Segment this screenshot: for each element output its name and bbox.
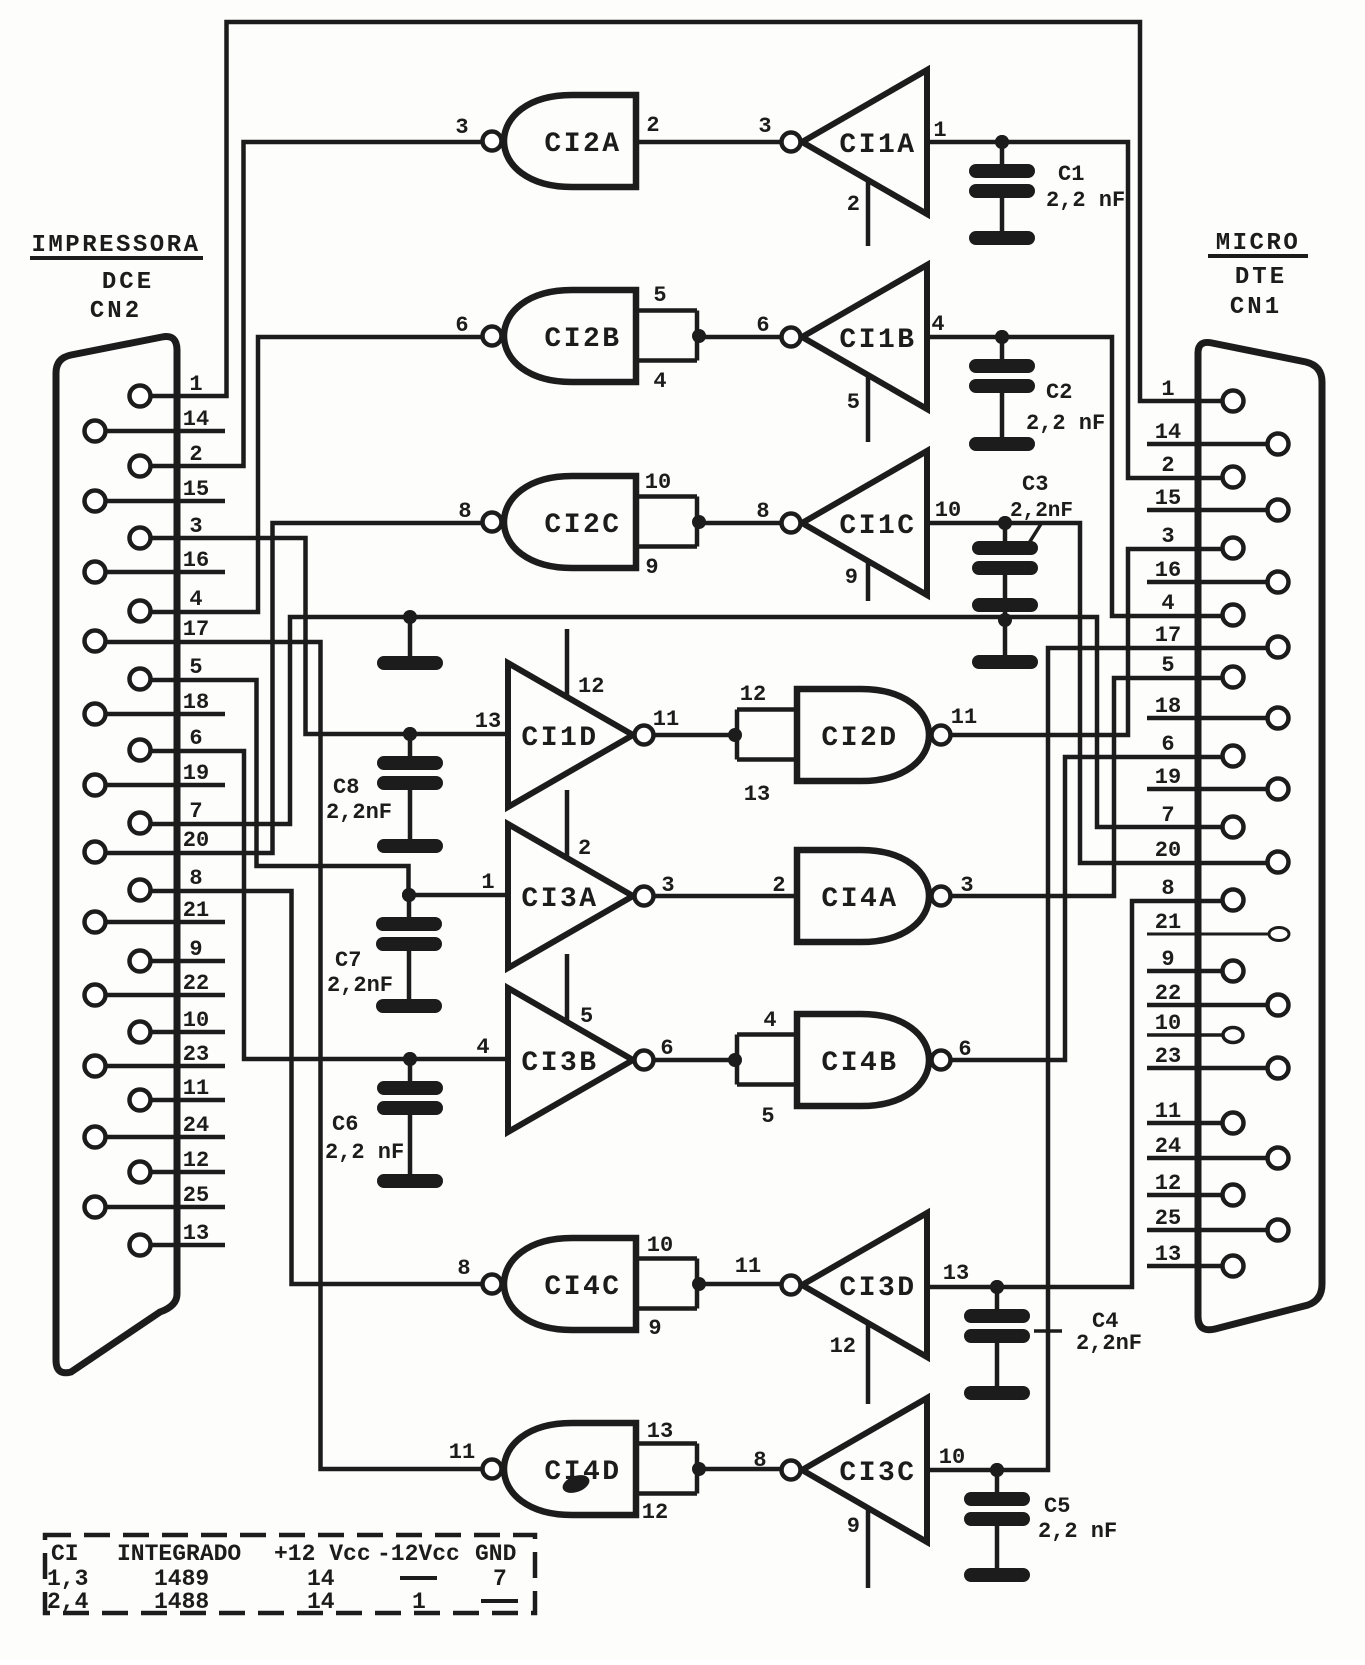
connector CN1 pin 12 bbox=[1223, 1185, 1244, 1206]
op-amp gate CI2C (1488 driver) bbox=[483, 476, 637, 568]
svg-text:4: 4 bbox=[931, 312, 944, 337]
wire CI2C output pin8 to CN2 pin20 bbox=[106, 523, 482, 853]
wire CI3A output to CI4A input bbox=[654, 894, 797, 899]
connector CN1 pin 11 bbox=[1223, 1113, 1244, 1134]
ink blot on CI4D label bbox=[560, 1472, 592, 1497]
wire CI2D output to CN1 pin3 bbox=[951, 549, 1221, 735]
connector CN2 pin 2 bbox=[130, 456, 151, 477]
wire top rail CN2.1 - CN1.1 (protective ground) bbox=[151, 22, 1221, 401]
connector CN2 pin 11 bbox=[130, 1090, 151, 1111]
svg-text:MICRO: MICRO bbox=[1216, 230, 1301, 257]
svg-text:24: 24 bbox=[1155, 1134, 1181, 1159]
connector CN1 pin 23 bbox=[1268, 1058, 1289, 1079]
svg-text:1: 1 bbox=[933, 118, 946, 143]
svg-text:11: 11 bbox=[1155, 1099, 1181, 1124]
connector CN2 pin 22 bbox=[85, 985, 106, 1006]
connector CN2 pin 5 bbox=[130, 669, 151, 690]
svg-text:23: 23 bbox=[183, 1042, 209, 1067]
wire CI3D output to CI4C inputs bbox=[699, 1282, 781, 1287]
svg-text:11: 11 bbox=[735, 1254, 761, 1279]
wire CI1B input to CN1 pin4 bbox=[927, 337, 1221, 616]
wire CI2A output pin3 to CN2 pin2 bbox=[151, 142, 482, 466]
svg-text:9: 9 bbox=[845, 565, 858, 590]
connector CN2 pin 12 bbox=[130, 1162, 151, 1183]
connector CN1 pin 3 bbox=[1223, 538, 1244, 559]
op-amp gate CI1D (1489 receiver) bbox=[508, 629, 654, 807]
svg-text:15: 15 bbox=[1155, 486, 1181, 511]
svg-text:17: 17 bbox=[183, 617, 209, 642]
svg-text:C6: C6 bbox=[332, 1112, 358, 1137]
svg-text:CI3C: CI3C bbox=[839, 1458, 916, 1489]
connector CN1 pin 10 bbox=[1223, 1028, 1243, 1043]
svg-text:16: 16 bbox=[1155, 558, 1181, 583]
wire CI3C output to CI4D inputs bbox=[699, 1467, 781, 1472]
input bracket CI2B pins 5,4 bbox=[636, 308, 697, 313]
wire CI1C input to CN1 pin20 bbox=[927, 523, 1267, 863]
svg-text:C3: C3 bbox=[1022, 472, 1048, 497]
svg-text:CI3B: CI3B bbox=[521, 1048, 598, 1079]
svg-text:9: 9 bbox=[189, 937, 202, 962]
connector CN1 pin 6 bbox=[1223, 746, 1244, 767]
svg-text:CI2C: CI2C bbox=[544, 510, 621, 541]
connector CN1 pin 18 bbox=[1268, 708, 1289, 729]
svg-text:11: 11 bbox=[449, 1440, 475, 1465]
connector CN1 pin 17 bbox=[1268, 637, 1289, 658]
connector CN2 pin 16 bbox=[85, 562, 106, 583]
connector CN1 pin 25 bbox=[1268, 1220, 1289, 1241]
svg-text:1488: 1488 bbox=[154, 1589, 209, 1615]
connector CN2 pin 15 bbox=[85, 491, 106, 512]
junction node C7 bbox=[402, 888, 416, 902]
junction node C5 bbox=[990, 1463, 1004, 1477]
svg-text:2: 2 bbox=[772, 873, 785, 898]
wire CN2 pin6 to CI3B input pin4 bbox=[151, 751, 508, 1059]
op-amp gate CI1B (1489 receiver) bbox=[782, 265, 928, 442]
capacitor C5 bbox=[990, 1463, 1004, 1477]
svg-text:1: 1 bbox=[412, 1589, 426, 1615]
connector CN1 pin 24 bbox=[1268, 1148, 1289, 1169]
connector CN2 pin 25 bbox=[85, 1197, 106, 1218]
svg-text:CI4B: CI4B bbox=[821, 1048, 898, 1079]
connector CN1 pin 15 bbox=[1268, 500, 1289, 521]
svg-text:C2: C2 bbox=[1046, 380, 1072, 405]
capacitor C4 bbox=[990, 1280, 1004, 1294]
connector CN2 pin 10 bbox=[130, 1022, 151, 1043]
svg-text:14: 14 bbox=[183, 407, 209, 432]
svg-text:C1: C1 bbox=[1058, 162, 1084, 187]
input bracket CI4C pins 10,9 bbox=[636, 1256, 697, 1261]
svg-text:22: 22 bbox=[1155, 981, 1181, 1006]
svg-text:4: 4 bbox=[189, 587, 202, 612]
wire CI4B output to CN1 pin6 bbox=[951, 757, 1221, 1060]
connector CN1 pin 21 bbox=[1269, 928, 1289, 941]
svg-text:12: 12 bbox=[642, 1500, 668, 1525]
svg-text:8: 8 bbox=[457, 1256, 470, 1281]
svg-text:8: 8 bbox=[1161, 876, 1174, 901]
svg-text:16: 16 bbox=[183, 548, 209, 573]
svg-text:2,2nF: 2,2nF bbox=[326, 800, 392, 825]
svg-text:5: 5 bbox=[761, 1104, 774, 1129]
svg-text:8: 8 bbox=[756, 499, 769, 524]
wire CI1A input to CN1 pin2 bbox=[927, 142, 1221, 478]
svg-text:13: 13 bbox=[943, 1261, 969, 1286]
connector CN2 pin 4 bbox=[130, 601, 151, 622]
junction node C1 bbox=[995, 135, 1009, 149]
wire CI3D input to CN1 pin8 bbox=[928, 901, 1221, 1287]
op-amp gate CI2A (1488 driver) bbox=[483, 95, 637, 187]
svg-text:13: 13 bbox=[183, 1221, 209, 1246]
svg-text:18: 18 bbox=[1155, 694, 1181, 719]
svg-text:15: 15 bbox=[183, 477, 209, 502]
svg-text:GND: GND bbox=[475, 1541, 516, 1567]
svg-text:9: 9 bbox=[648, 1316, 661, 1341]
svg-text:12: 12 bbox=[740, 682, 766, 707]
wire CN2 pin3 to CI1D input pin13 bbox=[151, 538, 508, 734]
connector CN2 pin 3 bbox=[130, 528, 151, 549]
svg-text:4: 4 bbox=[653, 369, 666, 394]
wire CI3C input to CN1 pin17 bbox=[927, 648, 1267, 1470]
wire CI1A output to CI2A input bbox=[636, 140, 781, 145]
input bracket CI4D pins 13,12 bbox=[636, 1441, 697, 1446]
svg-text:10: 10 bbox=[1155, 1011, 1181, 1036]
junction node C4 bbox=[990, 1280, 1004, 1294]
connector CN2 pin 9 bbox=[130, 951, 151, 972]
connector CN1 pin 9 bbox=[1223, 961, 1244, 982]
svg-text:23: 23 bbox=[1155, 1044, 1181, 1069]
wire signal ground rail CN2 pin7 to CN1 pin7 bbox=[151, 617, 1221, 827]
svg-text:8: 8 bbox=[753, 1448, 766, 1473]
junction node C6 bbox=[403, 1052, 417, 1066]
connector CN1 pin 1 bbox=[1223, 391, 1244, 412]
svg-text:CI1C: CI1C bbox=[839, 511, 916, 542]
svg-text:5: 5 bbox=[847, 390, 860, 415]
svg-text:22: 22 bbox=[183, 971, 209, 996]
svg-text:DCE: DCE bbox=[102, 269, 154, 296]
svg-text:4: 4 bbox=[763, 1008, 776, 1033]
svg-text:CI4C: CI4C bbox=[544, 1272, 621, 1303]
svg-text:IMPRESSORA: IMPRESSORA bbox=[31, 232, 200, 259]
svg-text:12: 12 bbox=[578, 674, 604, 699]
capacitor C1 bbox=[995, 135, 1009, 149]
wire CI4C output pin8 to CN2 pin8 bbox=[151, 891, 482, 1284]
connector CN2 pin 13 bbox=[130, 1235, 151, 1256]
op-amp gate CI2D (1488 driver) bbox=[797, 689, 951, 781]
svg-text:2,2nF: 2,2nF bbox=[1076, 1331, 1142, 1356]
svg-text:5: 5 bbox=[189, 655, 202, 680]
svg-text:C5: C5 bbox=[1044, 1494, 1070, 1519]
svg-text:-12Vcc: -12Vcc bbox=[377, 1541, 460, 1567]
svg-text:6: 6 bbox=[189, 726, 202, 751]
op-amp gate CI1C (1489 receiver) bbox=[782, 451, 928, 601]
svg-text:6: 6 bbox=[756, 313, 769, 338]
svg-text:25: 25 bbox=[1155, 1206, 1181, 1231]
junction node C3 bbox=[998, 516, 1012, 530]
svg-text:19: 19 bbox=[1155, 765, 1181, 790]
svg-text:2,2nF: 2,2nF bbox=[327, 973, 393, 998]
capacitor C2 bbox=[995, 330, 1009, 344]
connector CN2 pin 23 bbox=[85, 1056, 106, 1077]
op-amp gate CI4B (1488 driver) bbox=[797, 1014, 951, 1106]
svg-text:13: 13 bbox=[1155, 1242, 1181, 1267]
svg-text:CI1D: CI1D bbox=[521, 723, 598, 754]
svg-text:2,2 nF: 2,2 nF bbox=[325, 1140, 404, 1165]
svg-text:14: 14 bbox=[1155, 420, 1181, 445]
input bracket CI4B pins 4,5 bbox=[737, 1032, 797, 1037]
connector CN1 pin 20 bbox=[1268, 852, 1289, 873]
connector CN2 pin 8 bbox=[130, 880, 151, 901]
svg-text:8: 8 bbox=[458, 499, 471, 524]
svg-text:CI2A: CI2A bbox=[544, 129, 621, 160]
wire CI1B output to CI2B inputs bbox=[699, 335, 781, 340]
connector CN1 pin 2 bbox=[1223, 467, 1244, 488]
junction node C2 bbox=[995, 330, 1009, 344]
connector CN2 pin 1 bbox=[130, 386, 151, 407]
connector CN1 pin 22 bbox=[1268, 995, 1289, 1016]
connector CN1 pin 4 bbox=[1223, 605, 1244, 626]
capacitor C3 (2 plates + ground bar on rail) bbox=[998, 516, 1012, 530]
connector CN1 pin 7 bbox=[1223, 817, 1244, 838]
connector CN2 pin 7 bbox=[130, 813, 151, 834]
svg-text:5: 5 bbox=[1161, 653, 1174, 678]
connector CN1 pin 19 bbox=[1268, 779, 1289, 800]
svg-text:21: 21 bbox=[1155, 910, 1181, 935]
connector CN2 pin 6 bbox=[130, 740, 151, 761]
connector CN1 (MICRO) body outline bbox=[1198, 342, 1322, 1329]
svg-text:2: 2 bbox=[847, 192, 860, 217]
op-amp gate CI3B (1489 receiver) bbox=[508, 954, 654, 1132]
svg-text:21: 21 bbox=[183, 898, 209, 923]
svg-text:1: 1 bbox=[189, 372, 202, 397]
connector CN1 pin 13 bbox=[1223, 1256, 1244, 1277]
op-amp gate CI3A (1489 receiver) bbox=[508, 790, 654, 968]
svg-text:12: 12 bbox=[183, 1148, 209, 1173]
svg-text:9: 9 bbox=[1161, 947, 1174, 972]
svg-text:3: 3 bbox=[758, 114, 771, 139]
svg-text:9: 9 bbox=[847, 1514, 860, 1539]
table of IC power pins (dashed box) bbox=[45, 1535, 535, 1613]
svg-text:13: 13 bbox=[744, 782, 770, 807]
svg-text:DTE: DTE bbox=[1235, 264, 1287, 291]
svg-text:2: 2 bbox=[578, 836, 591, 861]
svg-text:18: 18 bbox=[183, 690, 209, 715]
connector CN2 pin 19 bbox=[85, 775, 106, 796]
svg-text:12: 12 bbox=[1155, 1171, 1181, 1196]
wire CI2B output pin6 to CN2 pin4 bbox=[151, 337, 482, 612]
wire CI1C output to CI2C inputs bbox=[699, 521, 781, 526]
svg-text:24: 24 bbox=[183, 1113, 209, 1138]
op-amp gate CI3D (1489 receiver) bbox=[782, 1213, 928, 1404]
op-amp gate CI3C (1489 receiver) bbox=[782, 1398, 928, 1588]
svg-text:13: 13 bbox=[475, 709, 501, 734]
wire CI4D output pin11 to CN2 pin17 bbox=[106, 642, 482, 1469]
junction node C8 bbox=[403, 727, 417, 741]
connector CN2 pin 17 bbox=[85, 631, 106, 652]
svg-text:8: 8 bbox=[189, 866, 202, 891]
svg-text:19: 19 bbox=[183, 761, 209, 786]
svg-text:+12 Vcc: +12 Vcc bbox=[274, 1541, 371, 1567]
svg-text:7: 7 bbox=[493, 1566, 507, 1592]
input bracket CI2C pins 10,9 bbox=[636, 494, 697, 499]
svg-text:CI2D: CI2D bbox=[821, 723, 898, 754]
svg-text:10: 10 bbox=[183, 1008, 209, 1033]
svg-text:CN2: CN2 bbox=[90, 298, 142, 325]
connector CN1 pin 8 bbox=[1223, 890, 1244, 911]
connector CN2 pin 24 bbox=[85, 1127, 106, 1148]
svg-text:INTEGRADO: INTEGRADO bbox=[117, 1541, 241, 1567]
svg-text:CI4A: CI4A bbox=[821, 884, 898, 915]
svg-text:2,2nF: 2,2nF bbox=[1010, 500, 1073, 523]
svg-text:5: 5 bbox=[653, 283, 666, 308]
svg-text:C7: C7 bbox=[335, 948, 361, 973]
svg-text:C8: C8 bbox=[333, 775, 359, 800]
svg-text:13: 13 bbox=[647, 1419, 673, 1444]
svg-text:1: 1 bbox=[481, 870, 494, 895]
ground symbol on rail at C8 column bbox=[403, 610, 417, 624]
wire CI1D output to CI2D inputs bbox=[654, 733, 735, 738]
svg-text:10: 10 bbox=[647, 1233, 673, 1258]
op-amp gate CI2B (1488 driver) bbox=[483, 290, 637, 382]
svg-text:4: 4 bbox=[1161, 591, 1174, 616]
svg-text:10: 10 bbox=[939, 1445, 965, 1470]
op-amp gate CI4A (1488 driver) bbox=[797, 850, 951, 942]
svg-text:2: 2 bbox=[1161, 453, 1174, 478]
svg-text:7: 7 bbox=[189, 799, 202, 824]
svg-text:CI1A: CI1A bbox=[839, 130, 916, 161]
input bracket CI2D pins 12,13 bbox=[737, 707, 797, 712]
op-amp gate CI1A (1489 receiver) bbox=[782, 70, 928, 246]
svg-text:14: 14 bbox=[307, 1589, 335, 1615]
connector CN2 pin 20 bbox=[85, 842, 106, 863]
svg-text:10: 10 bbox=[645, 470, 671, 495]
svg-text:4: 4 bbox=[476, 1035, 489, 1060]
wire CI3B output to CI4B inputs bbox=[654, 1058, 737, 1063]
svg-text:6: 6 bbox=[455, 313, 468, 338]
svg-text:CI: CI bbox=[51, 1541, 79, 1567]
connector CN1 pin 14 bbox=[1268, 434, 1289, 455]
connector CN2 pin 21 bbox=[85, 912, 106, 933]
svg-text:6: 6 bbox=[1161, 732, 1174, 757]
svg-text:20: 20 bbox=[1155, 838, 1181, 863]
svg-text:2,2 nF: 2,2 nF bbox=[1026, 411, 1105, 436]
capacitor C8 bbox=[403, 727, 417, 741]
svg-text:2,2 nF: 2,2 nF bbox=[1046, 188, 1125, 213]
svg-text:CI3D: CI3D bbox=[839, 1273, 916, 1304]
op-amp gate CI4D (1488 driver) bbox=[483, 1423, 637, 1515]
connector CN2 (IMPRESSORA) body outline bbox=[56, 337, 177, 1373]
svg-text:25: 25 bbox=[183, 1183, 209, 1208]
wire CI4A output to CN1 pin5 bbox=[951, 678, 1221, 896]
connector CN2 pin 14 bbox=[85, 421, 106, 442]
capacitor C7 bbox=[402, 888, 416, 902]
svg-text:20: 20 bbox=[183, 828, 209, 853]
svg-text:11: 11 bbox=[653, 707, 679, 732]
svg-text:2,2 nF: 2,2 nF bbox=[1038, 1519, 1117, 1544]
svg-text:10: 10 bbox=[935, 498, 961, 523]
svg-text:7: 7 bbox=[1161, 803, 1174, 828]
svg-text:2: 2 bbox=[189, 442, 202, 467]
svg-text:CN1: CN1 bbox=[1230, 294, 1282, 321]
svg-text:CI1B: CI1B bbox=[839, 325, 916, 356]
svg-text:3: 3 bbox=[455, 115, 468, 140]
connector CN1 pin 5 bbox=[1223, 667, 1244, 688]
connector CN2 pin 18 bbox=[85, 704, 106, 725]
svg-text:3: 3 bbox=[1161, 524, 1174, 549]
svg-text:CI3A: CI3A bbox=[521, 884, 598, 915]
svg-text:1: 1 bbox=[1161, 377, 1174, 402]
svg-text:2: 2 bbox=[646, 113, 659, 138]
svg-text:12: 12 bbox=[830, 1334, 856, 1359]
svg-text:5: 5 bbox=[580, 1004, 593, 1029]
svg-text:11: 11 bbox=[183, 1076, 209, 1101]
op-amp gate CI4C (1488 driver) bbox=[483, 1238, 637, 1330]
svg-text:3: 3 bbox=[189, 514, 202, 539]
svg-text:9: 9 bbox=[645, 555, 658, 580]
capacitor C6 bbox=[403, 1052, 417, 1066]
svg-text:11: 11 bbox=[951, 705, 977, 730]
svg-text:17: 17 bbox=[1155, 623, 1181, 648]
wire CN2 pin5 to CI3A input pin1 bbox=[151, 680, 409, 895]
svg-text:CI2B: CI2B bbox=[544, 324, 621, 355]
svg-text:2,4: 2,4 bbox=[47, 1589, 89, 1615]
connector CN1 pin 16 bbox=[1268, 572, 1289, 593]
svg-text:6: 6 bbox=[660, 1036, 673, 1061]
